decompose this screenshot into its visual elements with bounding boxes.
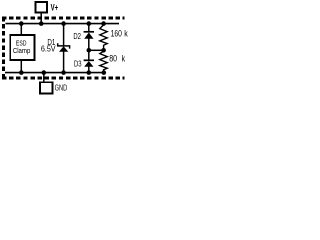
node dot GND stub (42, 70, 47, 75)
label ESD Clamp (13, 40, 31, 56)
label D3 (74, 60, 82, 69)
node dot ESD top (19, 21, 24, 26)
diode D3 (84, 50, 94, 72)
label GND (55, 82, 68, 93)
node dot D2 D3 junction (87, 48, 92, 53)
dashed IC boundary bottom (2, 77, 125, 80)
ESD clamp box (10, 35, 34, 60)
svg-text:k: k (122, 54, 126, 64)
dashed IC boundary left (2, 17, 5, 79)
node dot D3 bottom (87, 70, 92, 75)
wire V+ stub (40, 13, 42, 24)
label D1 6.5V (41, 40, 56, 54)
wire bottom rail (5, 72, 104, 74)
svg-text:D3: D3 (74, 60, 82, 69)
svg-text:k: k (124, 29, 128, 39)
zener diode D1 (58, 24, 70, 73)
svg-text:6.5V: 6.5V (41, 44, 56, 53)
label 80 k (109, 54, 125, 64)
svg-text:V+: V+ (51, 2, 59, 13)
node dot D1 bottom (61, 70, 66, 75)
terminal V+ box (35, 2, 47, 13)
svg-text:GND: GND (55, 82, 68, 93)
terminal GND box (40, 82, 52, 93)
wire GND stub (43, 73, 45, 82)
label 160 k (111, 28, 128, 38)
diode D2 (84, 24, 94, 51)
node dot R2 bottom (102, 70, 107, 75)
svg-text:160: 160 (111, 28, 123, 38)
node dot divider tap (101, 48, 106, 53)
node dot D2 top (87, 21, 92, 26)
node dot D1 top (61, 21, 66, 26)
svg-text:Clamp: Clamp (13, 47, 31, 55)
wire ESD clamp top stub (20, 24, 22, 35)
wire top rail (5, 23, 119, 25)
dashed IC boundary top (2, 17, 125, 20)
node dot ESD bottom (19, 70, 24, 75)
svg-text:D2: D2 (73, 32, 81, 41)
resistor R2 80k (100, 50, 107, 72)
resistor R1 160k (100, 24, 107, 51)
label V+ (51, 2, 59, 13)
wire ESD clamp bottom stub (20, 60, 22, 72)
svg-text:80: 80 (109, 54, 117, 64)
label D2 (73, 32, 81, 41)
wire divider tap (89, 49, 104, 51)
node dot V+ / top rail (39, 21, 44, 26)
node dot R1 top (101, 21, 106, 26)
